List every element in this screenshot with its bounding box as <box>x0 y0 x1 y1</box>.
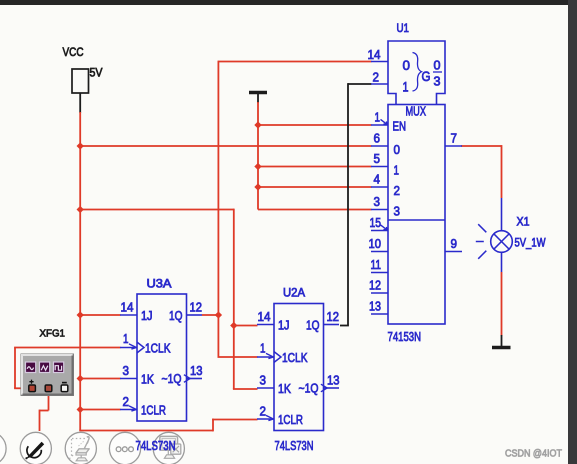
wire VCC to U3A 1K <box>80 378 120 380</box>
svg-text:14: 14 <box>121 301 134 315</box>
svg-text:13: 13 <box>369 300 381 314</box>
U1 pin 6 <box>371 145 388 147</box>
U2A pin 1 CLK <box>257 356 274 358</box>
svg-text:7: 7 <box>451 132 458 146</box>
ground symbol (bottom, under lamp) <box>492 335 511 348</box>
screen top bar <box>0 0 577 5</box>
XFG1 waveform button 3 <box>54 362 64 373</box>
svg-text:1J: 1J <box>278 319 290 333</box>
U1 pin 10 <box>371 251 388 253</box>
U2A pin 3 1K <box>257 387 274 389</box>
wire ground to U1 pin 4 <box>258 186 372 188</box>
U3A pin 3 1K <box>120 378 137 380</box>
svg-text:0: 0 <box>403 58 411 73</box>
svg-text:U2A: U2A <box>283 286 305 300</box>
svg-text:1CLK: 1CLK <box>282 351 308 365</box>
svg-text:0: 0 <box>394 142 401 157</box>
svg-text:1K: 1K <box>278 382 292 396</box>
svg-text:CSDN @4IOT: CSDN @4IOT <box>505 448 562 460</box>
wire U2A 1Q to U1 pin 2 (black) <box>348 83 372 85</box>
U1 pin 15 enable hook <box>381 225 388 230</box>
U1 pin 1 <box>371 124 388 126</box>
U1 pin 14 <box>371 61 388 63</box>
U3A pin 12 1Q <box>187 314 203 316</box>
svg-text:74153N: 74153N <box>388 329 422 344</box>
ground symbol (top, near U1) <box>249 93 267 104</box>
svg-text:X1: X1 <box>517 217 530 229</box>
U2A pin 14 1J <box>257 324 274 326</box>
svg-text:1: 1 <box>375 111 381 125</box>
toolbar icon projector <box>65 432 96 464</box>
svg-text:2: 2 <box>394 183 401 198</box>
svg-text:1J: 1J <box>141 309 153 323</box>
svg-text:1Q: 1Q <box>169 309 183 323</box>
svg-text:74LS73N: 74LS73N <box>136 438 176 453</box>
svg-text:4: 4 <box>374 173 381 187</box>
svg-text:~1Q: ~1Q <box>299 382 319 396</box>
wire VCC bottom run to U2A CLR <box>79 430 213 432</box>
svg-text:11: 11 <box>371 258 382 272</box>
multiplexer U1 74153N <box>368 21 463 344</box>
wire lamp X1 to ground <box>501 272 503 336</box>
svg-text:1CLR: 1CLR <box>141 404 166 418</box>
svg-text:1Q: 1Q <box>306 319 320 333</box>
U1 pin 11 <box>371 272 388 274</box>
wire U3A 1Q to U1 pin 14 and U2A CLK <box>218 61 371 63</box>
U1 pin 1 enable hook <box>381 119 388 124</box>
XFG1 - terminal <box>62 382 67 384</box>
XFG1 + terminal <box>29 380 33 384</box>
wire ground vertical to select pins <box>257 102 259 210</box>
wire ground to U1 pin 3 <box>258 209 372 211</box>
U1 pin 3 <box>371 209 388 211</box>
U1 pin 15 <box>371 230 388 232</box>
svg-text:XFG1: XFG1 <box>40 328 66 340</box>
svg-text:1CLK: 1CLK <box>145 342 171 356</box>
wire ground to U1 pin 1 EN <box>258 124 372 126</box>
junction dot U3A 1Q node <box>215 311 222 318</box>
svg-text:0: 0 <box>434 59 441 73</box>
wire XFG1 common terminal down <box>48 392 50 411</box>
svg-text:3: 3 <box>123 364 130 378</box>
wire to U2A 1J <box>234 325 258 327</box>
svg-text:14: 14 <box>368 48 381 62</box>
svg-text:3: 3 <box>434 75 441 89</box>
svg-text:U3A: U3A <box>147 277 172 291</box>
U2A pin 2 1CLR <box>257 418 274 420</box>
wire VCC vertical trunk <box>79 112 81 431</box>
wire VCC to U3A 1J <box>80 314 120 316</box>
junction dots on VCC net <box>77 142 84 149</box>
svg-text:10: 10 <box>369 237 382 251</box>
svg-text:14: 14 <box>258 310 271 324</box>
svg-text:EN: EN <box>393 119 407 134</box>
svg-text:U1: U1 <box>397 21 410 35</box>
svg-text:1: 1 <box>260 342 266 356</box>
wire U1 pin 7 to lamp X1 <box>461 145 502 147</box>
U1 pin 12 <box>371 292 388 294</box>
U3A pin 13 ~1Q <box>187 378 203 380</box>
U3A pin 2 1CLR <box>120 409 137 411</box>
svg-text:VCC: VCC <box>63 45 84 59</box>
svg-text:15: 15 <box>370 216 382 230</box>
power VCC <box>63 45 103 113</box>
U2A pin 12 1Q <box>324 324 340 326</box>
svg-text:6: 6 <box>374 132 381 146</box>
svg-text:74LS73N: 74LS73N <box>275 438 314 453</box>
svg-text:1: 1 <box>123 332 129 346</box>
svg-text:13: 13 <box>327 374 340 388</box>
wire to U2A 1K <box>233 388 258 390</box>
svg-text:2: 2 <box>123 395 130 409</box>
svg-text:9: 9 <box>451 237 458 251</box>
XFG1 waveform button 1 <box>26 362 36 373</box>
U1 pin 2 <box>371 83 388 85</box>
svg-text:13: 13 <box>190 364 203 378</box>
U3A pin 14 1J <box>120 314 137 316</box>
junction dots on ground net <box>254 121 261 128</box>
svg-text:12: 12 <box>190 301 203 315</box>
svg-text:12: 12 <box>369 279 381 293</box>
function generator XFG1 <box>21 328 74 396</box>
U1 pin 9 <box>445 251 462 253</box>
toolbar icon pen <box>20 432 51 464</box>
toolbar icon monitor <box>153 432 184 464</box>
svg-text:5V_1W: 5V_1W <box>515 238 546 250</box>
U1 pin 5 <box>371 166 388 168</box>
svg-text:3: 3 <box>394 204 401 219</box>
svg-text:MUX: MUX <box>406 104 427 119</box>
XFG1 common terminal <box>45 385 52 392</box>
wire ground to U1 pin 5 <box>258 166 372 168</box>
svg-text:2: 2 <box>260 405 267 419</box>
U1 pin 13 <box>371 313 388 315</box>
screen right bar <box>568 0 577 464</box>
U2A pin 13 ~1Q <box>324 387 340 389</box>
U3A pin 1 CLK <box>120 347 137 349</box>
svg-text:1: 1 <box>403 80 409 95</box>
U1 pin 4 <box>371 186 388 188</box>
svg-text:1CLR: 1CLR <box>278 413 303 427</box>
svg-text:3: 3 <box>260 374 267 388</box>
svg-text:~1Q: ~1Q <box>162 372 182 386</box>
wire VCC to U3A 1CLR <box>80 409 120 411</box>
toolbar circle (partial, left edge) <box>0 432 6 464</box>
U1 pin 7 <box>445 145 462 147</box>
svg-text:5V: 5V <box>90 66 103 80</box>
svg-text:1K: 1K <box>141 373 155 387</box>
svg-text:3: 3 <box>374 195 381 209</box>
XFG1 waveform button 2 <box>40 362 50 373</box>
wire XFG1 + output to U3A CLK <box>14 348 16 389</box>
svg-text:G: G <box>422 69 431 84</box>
wire VCC branch to U2A J/K <box>80 209 234 211</box>
svg-text:12: 12 <box>327 310 340 324</box>
lamp X1 5V_1W <box>476 198 546 272</box>
svg-text:1: 1 <box>394 163 400 178</box>
svg-text:2: 2 <box>373 71 380 85</box>
toolbar icon ooo <box>109 432 140 464</box>
svg-text:5: 5 <box>374 152 381 166</box>
lamp rays <box>478 224 486 232</box>
wire VCC to U1 pin 6 <box>80 145 371 147</box>
